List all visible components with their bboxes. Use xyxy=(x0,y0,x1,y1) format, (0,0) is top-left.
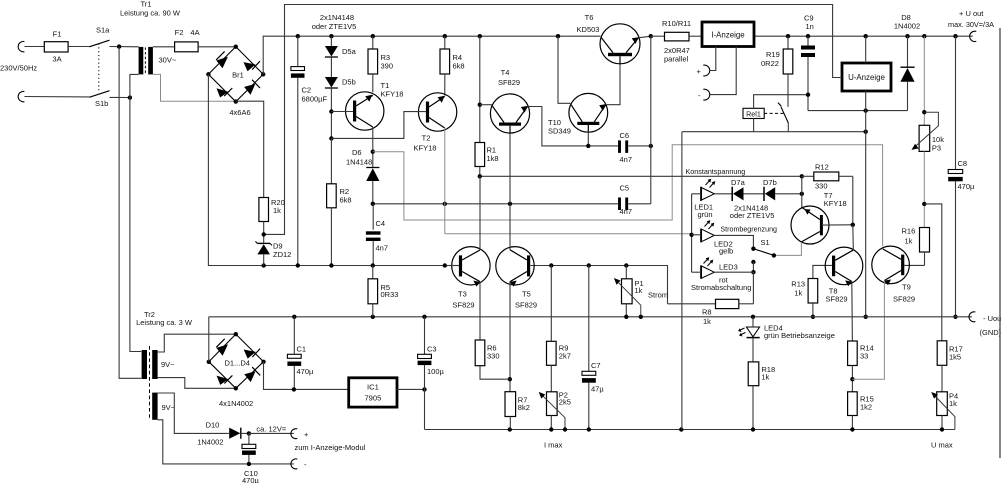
wire bus2a R1-R12 (Konstantspannung line) xyxy=(480,175,802,177)
svg-text:4n7: 4n7 xyxy=(376,244,389,253)
transistor T7 xyxy=(791,206,829,244)
label T7 xyxy=(824,191,833,200)
svg-text:Strom: Strom xyxy=(648,291,668,300)
svg-text:max. 30V=/3A: max. 30V=/3A xyxy=(948,20,994,29)
svg-text:KFY18: KFY18 xyxy=(824,199,847,208)
label C1 value xyxy=(297,367,315,376)
junction R20 D9 sense xyxy=(262,232,266,236)
label T10 type xyxy=(548,127,571,136)
label C2 xyxy=(302,86,312,95)
wire Rel1 bottom xyxy=(753,119,755,132)
resistor R20 xyxy=(259,198,269,243)
junction Br1 right xyxy=(261,72,265,76)
bridge rectifier D1...D4 xyxy=(209,334,264,388)
svg-text:230V/50Hz: 230V/50Hz xyxy=(0,64,37,73)
junction rail T10 collector branch xyxy=(556,34,560,38)
junction D5 T1 base xyxy=(329,109,333,113)
junction bus3 R9 xyxy=(549,263,553,267)
resistor R6 xyxy=(475,340,510,379)
label Tr2 xyxy=(144,310,155,319)
svg-text:T9: T9 xyxy=(902,283,911,292)
junction bus2a R12 xyxy=(800,174,804,178)
junction rail C2 xyxy=(296,34,300,38)
wire T4 base down xyxy=(509,133,511,204)
svg-text:C5: C5 xyxy=(620,184,630,193)
label D6 type xyxy=(346,158,372,167)
junction rail P3 xyxy=(922,34,926,38)
junction rail U-Anzeige xyxy=(864,34,868,38)
label R16 xyxy=(902,227,916,236)
svg-text:D5a: D5a xyxy=(342,47,357,56)
zener diode D9 xyxy=(255,241,272,265)
label minus I-Anzeige xyxy=(698,91,701,100)
svg-text:T6: T6 xyxy=(585,13,594,22)
capacitor C4 xyxy=(366,204,381,266)
svg-text:+: + xyxy=(697,67,702,76)
junction T1 T2 base bus xyxy=(329,136,333,140)
transistor T5 xyxy=(496,247,534,287)
junction bus3 C2 xyxy=(296,263,300,267)
junction GND U-Anzeige line xyxy=(864,315,868,319)
label 2x1N4148 xyxy=(320,13,354,22)
svg-text:30V~: 30V~ xyxy=(159,56,177,65)
junction U-Anzeige bottom xyxy=(864,108,868,112)
transformer Tr1 primary winding xyxy=(139,47,144,75)
voltage regulator IC1 box xyxy=(349,378,397,407)
svg-text:F1: F1 xyxy=(53,30,62,39)
wire T10 base down xyxy=(587,132,589,146)
label Strom xyxy=(648,291,668,300)
resistor R9 xyxy=(547,266,557,392)
label C7 value xyxy=(591,385,604,394)
switch S1b blade xyxy=(89,91,109,98)
svg-text:1k: 1k xyxy=(905,237,913,246)
wire Rel1 top to C9 node xyxy=(754,95,808,109)
wire T1 collector to T9 path (sense line) xyxy=(373,145,883,247)
label R3 value xyxy=(381,62,394,71)
resistor R7 xyxy=(505,392,516,430)
resistor R16 xyxy=(920,228,930,266)
svg-text:1k2: 1k2 xyxy=(860,403,872,412)
junction bus2a R1 xyxy=(478,174,482,178)
label T3 type xyxy=(453,301,475,310)
svg-text:2k5: 2k5 xyxy=(559,398,571,407)
wire Tr2 sec1 top to D1D4 xyxy=(158,334,236,352)
diode D5a xyxy=(325,36,338,57)
terminal + U out xyxy=(970,31,977,41)
capacitor C6 xyxy=(620,140,651,153)
junction R14 R15 T9e xyxy=(850,377,854,381)
label R15 xyxy=(860,395,874,404)
resistor R8 xyxy=(668,299,754,308)
wire S1b to junction xyxy=(110,96,130,98)
svg-text:T5: T5 xyxy=(522,290,531,299)
label R1 value xyxy=(487,154,499,163)
label P4 value xyxy=(949,399,957,408)
label S1a xyxy=(96,26,110,35)
junction T7 base T8 collector xyxy=(851,223,855,227)
label C6 xyxy=(620,131,630,140)
wire T6 emitter to node xyxy=(638,36,650,38)
label LED4 xyxy=(764,324,783,333)
resistor R19 xyxy=(783,36,793,103)
label S1 xyxy=(761,238,770,247)
wire Tr1 secondary top to F2 xyxy=(153,46,175,48)
label C2 value xyxy=(302,95,328,104)
svg-text:zum I-Anzeige-Modul: zum I-Anzeige-Modul xyxy=(295,443,366,452)
label R8 value xyxy=(703,317,711,326)
junction bus5 R15 xyxy=(850,427,854,431)
svg-text:Br1: Br1 xyxy=(232,71,244,80)
wire T2 emitter xyxy=(444,93,446,95)
junction S1 top throw xyxy=(751,247,755,251)
svg-text:ZD12: ZD12 xyxy=(273,250,291,259)
wire I-Anzeige plus xyxy=(709,47,716,71)
svg-text:oder ZTE1V5: oder ZTE1V5 xyxy=(312,22,357,31)
svg-text:R10/R11: R10/R11 xyxy=(662,19,691,28)
junction D10 C10 xyxy=(247,431,251,435)
label T1 type xyxy=(381,90,404,99)
svg-text:6800µF: 6800µF xyxy=(302,95,328,104)
svg-text:7905: 7905 xyxy=(364,394,381,403)
label LED3 color xyxy=(719,276,729,285)
label R5 value xyxy=(381,290,399,299)
svg-text:SF829: SF829 xyxy=(893,295,915,304)
terminal I-Anzeige minus xyxy=(703,89,709,100)
svg-text:LED3: LED3 xyxy=(719,263,738,272)
wire LED4 to R18 xyxy=(752,317,754,327)
diode D6 xyxy=(366,168,379,204)
potentiometer P1 xyxy=(614,266,641,317)
junction D1D4 left xyxy=(207,360,211,364)
label R9 value xyxy=(559,352,571,361)
transformer Tr1 core xyxy=(144,48,146,75)
label + U out xyxy=(959,9,984,18)
label S1b xyxy=(95,99,108,108)
label Strombegrenzung xyxy=(720,225,777,234)
wire LED2 anode to S1 xyxy=(714,235,753,248)
wire D1D4 left corner up to GND bus xyxy=(208,317,210,362)
resistor R13 xyxy=(808,265,832,316)
wire P3 node to R17 xyxy=(924,204,942,341)
wire T1 collector to D6 xyxy=(372,127,374,168)
bridge rectifier Br1 xyxy=(208,47,263,102)
switch link dashed xyxy=(98,44,100,93)
label T6 type xyxy=(577,25,600,34)
svg-text:S1a: S1a xyxy=(96,26,110,35)
svg-text:U-Anzeige: U-Anzeige xyxy=(848,73,885,82)
wire Br1 right corner to +rail xyxy=(263,36,600,74)
wire LED1 to D7a xyxy=(714,193,732,195)
wire C3 node down to bottom bus xyxy=(424,389,426,429)
label LED2 xyxy=(714,240,733,249)
potentiometer P4 xyxy=(931,392,955,430)
svg-text:0R22: 0R22 xyxy=(761,59,779,68)
label P3 value xyxy=(932,135,944,144)
diode D7b xyxy=(764,187,775,201)
wire input-bottom to S1b xyxy=(24,96,89,98)
junction D1D4 top xyxy=(234,332,238,336)
svg-text:Tr1: Tr1 xyxy=(141,0,152,9)
label - Uout xyxy=(983,314,1001,323)
wire D7a to D7b xyxy=(744,193,765,195)
capacitor C8 xyxy=(948,36,963,317)
wire T8 collector up xyxy=(852,225,855,250)
label R19 value xyxy=(761,59,779,68)
module I-Anzeige box xyxy=(702,22,754,47)
diode D10 xyxy=(229,428,249,439)
wire R16 to T9 base xyxy=(904,264,924,266)
label T9 type xyxy=(893,295,915,304)
label R12 value xyxy=(815,182,828,191)
wire T8 emitter to R14 xyxy=(851,282,854,342)
transistor T4 xyxy=(490,94,529,133)
label C5 xyxy=(620,184,630,193)
label Tr1 xyxy=(141,0,152,9)
label 3A xyxy=(52,55,61,64)
relay contact xyxy=(764,103,788,123)
junction bus5 R18 xyxy=(751,427,755,431)
junction bus3 C7 xyxy=(587,263,591,267)
transistor T10 xyxy=(569,93,608,132)
svg-text:390: 390 xyxy=(381,62,394,71)
svg-text:D5b: D5b xyxy=(342,78,356,87)
label max 30V/3A xyxy=(948,20,994,29)
svg-text:1N4148: 1N4148 xyxy=(346,158,372,167)
wire GND bus xyxy=(209,316,972,318)
wire LED2 left xyxy=(692,234,701,236)
wire base bus right segment xyxy=(531,266,668,304)
label 9V~ (2) xyxy=(162,403,176,412)
wire Tr2 sec2 bottom xyxy=(158,420,294,464)
resistor R2 xyxy=(327,138,337,265)
svg-text:R13: R13 xyxy=(791,280,805,289)
wire F2 to Br1 top xyxy=(198,46,236,48)
resistor R17 xyxy=(937,341,947,392)
svg-text:(GND): (GND) xyxy=(980,328,1001,337)
junction P3 top wiper xyxy=(922,110,926,114)
junction Br1 bottom xyxy=(234,99,238,103)
resistor R5 xyxy=(368,266,378,317)
junction GND R13 xyxy=(811,315,815,319)
junction IC1 C3 xyxy=(422,387,426,391)
label D8 type xyxy=(894,22,920,31)
label 230V/50Hz xyxy=(0,64,37,73)
wire IC1 out to C3 node xyxy=(397,388,425,390)
label T9 xyxy=(902,283,911,292)
fuse F1 xyxy=(44,42,68,52)
wire bus3 to T3 base xyxy=(445,265,459,267)
junction GND R5 xyxy=(371,315,375,319)
svg-text:1k: 1k xyxy=(635,286,643,295)
svg-text:330: 330 xyxy=(815,182,828,191)
junction GND C3 xyxy=(422,315,426,319)
svg-text:1k5: 1k5 xyxy=(949,353,961,362)
label zum I-Anzeige-Modul xyxy=(295,443,366,452)
transistor T1 xyxy=(346,92,384,130)
svg-text:C1: C1 xyxy=(297,345,307,354)
label P1 value xyxy=(635,286,643,295)
svg-text:9V~: 9V~ xyxy=(162,403,176,412)
svg-text:1n: 1n xyxy=(806,22,814,31)
label C4 xyxy=(376,219,386,228)
svg-text:R16: R16 xyxy=(902,227,916,236)
label Tr2 power xyxy=(136,318,193,327)
svg-text:I max: I max xyxy=(544,441,563,450)
svg-text:Strombegrenzung: Strombegrenzung xyxy=(720,225,777,234)
label F1 xyxy=(53,30,62,39)
svg-text:D1...D4: D1...D4 xyxy=(225,358,250,367)
label GND xyxy=(980,328,1001,337)
wire T3 collector up xyxy=(479,176,481,250)
svg-text:ca. 12V=: ca. 12V= xyxy=(256,425,286,434)
label 2x0R47 xyxy=(664,46,690,55)
svg-text:D7a: D7a xyxy=(731,178,746,187)
svg-text:S1b: S1b xyxy=(95,99,108,108)
svg-text:Leistung ca. 90 W: Leistung ca. 90 W xyxy=(120,9,181,18)
svg-text:C3: C3 xyxy=(427,345,437,354)
wire D5b to T1 base node xyxy=(330,88,332,138)
label C4 value xyxy=(376,244,389,253)
svg-text:SF829: SF829 xyxy=(453,301,475,310)
svg-text:470µ: 470µ xyxy=(958,182,976,191)
svg-text:oder ZTE1V5: oder ZTE1V5 xyxy=(730,211,775,220)
label R6 xyxy=(487,344,497,353)
switch S1a blade xyxy=(89,40,109,47)
svg-text:6k8: 6k8 xyxy=(453,62,465,71)
wire sense top line xyxy=(285,5,843,78)
svg-text:33: 33 xyxy=(860,352,868,361)
terminal aux minus xyxy=(291,459,297,469)
svg-text:F2: F2 xyxy=(175,28,184,37)
label T1 xyxy=(381,81,390,90)
svg-text:SF829: SF829 xyxy=(515,301,537,310)
junction bus3 R2 xyxy=(329,263,333,267)
wire S1a node down to Tr2 primary bottom xyxy=(119,47,141,379)
junction bus5 P4 xyxy=(940,427,944,431)
junction D7b T7 xyxy=(800,192,804,196)
svg-text:T2: T2 xyxy=(422,134,431,143)
transistor T6 xyxy=(600,24,640,64)
label R13 xyxy=(791,280,805,289)
junction bus3 T3 base xyxy=(443,263,447,267)
label R4 value xyxy=(453,62,465,71)
label D7a xyxy=(731,178,746,187)
label U max xyxy=(931,441,953,450)
resistor R15 xyxy=(848,392,858,430)
wire R12 vertical to T7 collector xyxy=(801,176,803,207)
junction GND LED4 xyxy=(751,315,755,319)
LED LED1 xyxy=(701,179,715,201)
label I max xyxy=(544,441,563,450)
label oder ZTE1V5 xyxy=(312,22,357,31)
label P4 xyxy=(949,392,958,401)
junction rail D8 xyxy=(905,34,909,38)
junction rail R1 xyxy=(478,34,482,38)
transformer Tr2 primary winding xyxy=(142,350,147,379)
wire T2 base path xyxy=(331,112,426,139)
label D7b xyxy=(763,178,777,187)
svg-text:2x1N4148: 2x1N4148 xyxy=(320,13,354,22)
junction rail D5a xyxy=(329,34,333,38)
label R8 xyxy=(702,308,712,317)
svg-text:T3: T3 xyxy=(458,290,467,299)
resistor R12 xyxy=(802,172,853,181)
junction rail C8 xyxy=(953,34,957,38)
label T5 xyxy=(522,290,531,299)
label oder ZTE1V5 (2) xyxy=(730,211,775,220)
svg-text:2k7: 2k7 xyxy=(559,352,571,361)
wire LED3 left xyxy=(692,271,701,273)
junction rail R4 xyxy=(443,34,447,38)
svg-text:grün: grün xyxy=(698,210,713,219)
svg-text:+: + xyxy=(304,430,309,439)
svg-text:330: 330 xyxy=(487,352,500,361)
wire rail to T10 collector xyxy=(558,36,571,103)
label R4 xyxy=(453,53,463,62)
junction C9 minus wire xyxy=(806,93,810,97)
label F2 4A xyxy=(190,28,199,37)
resistor R10/R11 xyxy=(651,32,702,41)
label C5 value xyxy=(620,207,633,216)
wire S1 throw link xyxy=(752,262,754,272)
label T5 type xyxy=(515,301,537,310)
label T4 xyxy=(501,68,510,77)
label R16 value xyxy=(905,237,913,246)
junction Br1 top xyxy=(234,45,238,49)
label C1 xyxy=(297,345,307,354)
wire LED1 left xyxy=(692,193,701,195)
resistor R3 xyxy=(368,36,378,92)
resistor R14 xyxy=(848,341,858,392)
svg-text:Leistung ca. 3 W: Leistung ca. 3 W xyxy=(136,318,193,327)
wire Tr1 secondary bottom to Br1 bottom xyxy=(153,74,236,101)
svg-text:C8: C8 xyxy=(958,159,968,168)
label R18 xyxy=(761,365,775,374)
label T10 xyxy=(548,118,561,127)
svg-text:Konstantspannung: Konstantspannung xyxy=(686,167,746,176)
resistor R1 xyxy=(475,36,485,176)
resistor R18 xyxy=(748,338,759,430)
wire Tr2 sec1 bottom to D1D4 xyxy=(158,378,236,389)
junction GND P1a xyxy=(624,315,628,319)
wire T10 emitter to T6 base xyxy=(606,64,620,105)
wire LED3 node down to R8 xyxy=(752,272,754,304)
svg-text:IC1: IC1 xyxy=(367,383,379,392)
potentiometer P2 xyxy=(539,392,565,430)
capacitor C2 xyxy=(291,36,305,265)
label ca 12V xyxy=(256,425,286,434)
transformer Tr2 secondary2 winding xyxy=(152,393,157,420)
svg-text:P3: P3 xyxy=(932,144,941,153)
capacitor C9 xyxy=(801,36,815,110)
label LED2 color xyxy=(719,247,733,256)
label T6 xyxy=(585,13,594,22)
junction LED2 node xyxy=(689,233,693,237)
junction S1b node xyxy=(128,95,132,99)
svg-text:grün Betriebsanzeige: grün Betriebsanzeige xyxy=(764,331,835,340)
LED LED2 xyxy=(701,220,714,242)
label R20 value xyxy=(273,206,281,215)
transistor T3 xyxy=(452,247,490,287)
label 2x1N4148 (2) xyxy=(734,204,768,213)
label R10/R11 xyxy=(662,19,691,28)
junction bus2 T4 base xyxy=(508,202,512,206)
junction bus5 relay node xyxy=(679,427,683,431)
junction rail R3 xyxy=(371,34,375,38)
label C9 value xyxy=(806,22,814,31)
label T2 xyxy=(422,134,431,143)
